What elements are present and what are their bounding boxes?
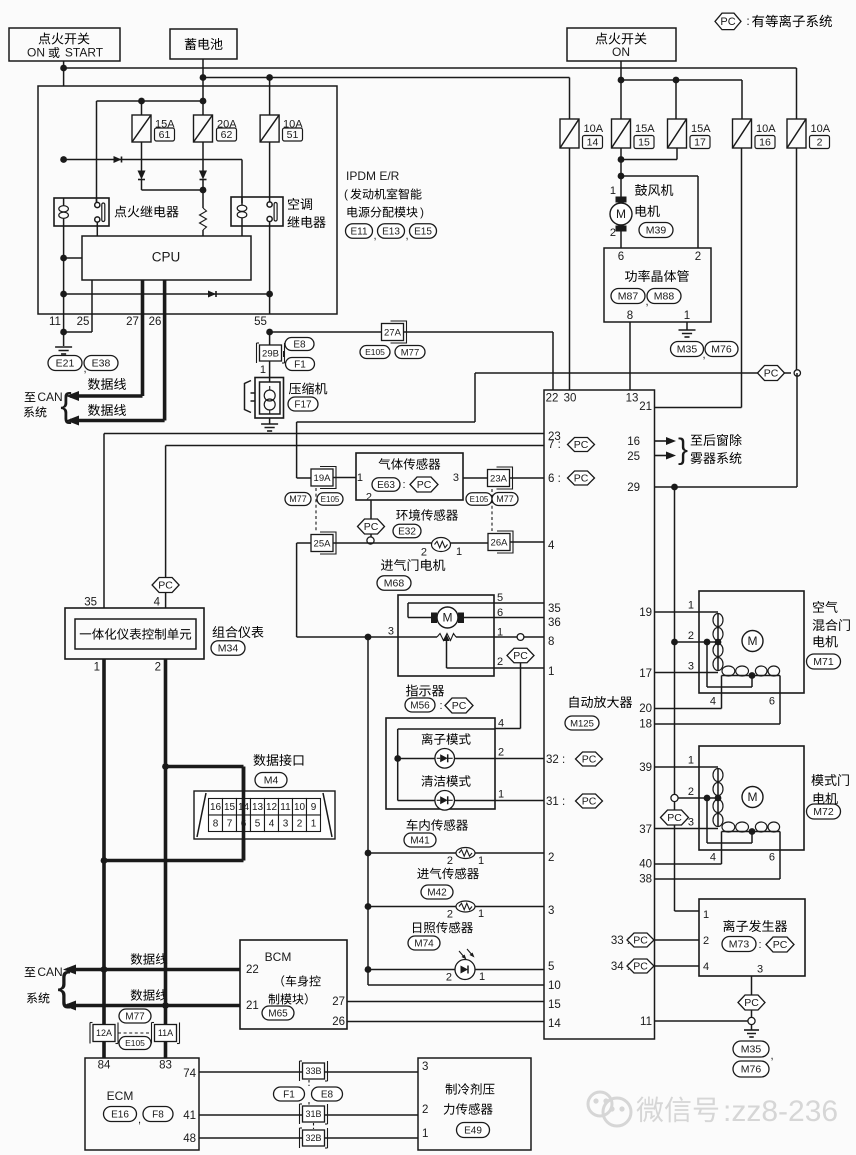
svg-text:M: M [443,611,453,625]
svg-text:2: 2 [688,630,694,642]
meter pin2 CAN thick wire down [164,659,168,1058]
connector 26A [497,531,513,553]
resistor ambient sensor element [432,538,451,552]
svg-text:M76: M76 [711,344,732,356]
svg-text:4: 4 [498,717,504,729]
svg-text:39: 39 [639,762,652,774]
wire transistor pin8 to amp pin13 [629,322,631,390]
connector 23A [497,467,513,489]
svg-text:1: 1 [479,971,485,983]
fuse 10A #14 [560,119,579,148]
wire amp pin29 PC option [655,486,797,488]
intake sensor wire to amp pin3 [365,903,372,910]
svg-text:M34: M34 [218,643,239,655]
svg-text:M41: M41 [410,836,430,847]
wire amp pin16 defogger arrow [655,440,666,442]
svg-text:33B: 33B [305,1066,321,1076]
label combination meter M34 [213,626,264,638]
wire fuse15 down to blower [620,148,622,197]
fuse 15A #61 [132,115,151,142]
svg-text:E32: E32 [398,527,416,538]
svg-text:M72: M72 [813,806,834,818]
svg-text:3: 3 [453,472,459,484]
svg-text:PC: PC [582,754,597,766]
svg-text:4: 4 [548,540,555,552]
M72 pin4 wire to amp pin40 [721,832,723,865]
wire fuse62 output to diode [202,142,204,171]
refrigerant pressure sensor E49 box [418,1058,531,1150]
fuse 10A #16 [733,119,752,148]
svg-text:15A: 15A [691,123,711,135]
wire PC net to ion generator pin1 [674,825,676,911]
svg-text:,: , [373,230,376,242]
M71 winding B [713,644,723,657]
svg-text:1: 1 [548,666,554,678]
connector E11 E13 E15 ovals [346,224,373,239]
svg-text:M77: M77 [496,494,514,504]
ECM pin74 wire to refrigerant sensor pin3 [199,1071,418,1073]
svg-text:M88: M88 [654,291,675,303]
svg-text:2: 2 [497,656,503,668]
svg-text:CPU: CPU [152,250,181,265]
svg-text:23A: 23A [490,473,508,484]
connector E8/F1 ovals [285,338,314,351]
arrow CAN data line 3 [63,965,76,975]
wire battery rail y77 [202,59,204,115]
svg-text:M77: M77 [289,494,307,504]
node open circle fuse2 option [794,370,800,376]
svg-text:22: 22 [546,393,559,405]
fuse 15A #15 [612,119,631,148]
svg-text:31B: 31B [305,1109,321,1119]
svg-text:PC: PC [744,997,759,1009]
label sunload sensor M74 [413,922,473,934]
svg-text:29: 29 [627,482,640,494]
node open circle ion ground [748,1017,755,1024]
ECM box [85,1058,199,1150]
svg-text:2: 2 [695,251,701,263]
hexagon PC below M72 circle [674,801,676,810]
hexagon PC ion ground [738,995,765,1010]
relay A/C contact [267,202,272,207]
svg-text:1: 1 [688,599,694,611]
CPU pin 26 CAN wire thick [163,280,167,421]
svg-text:14: 14 [548,1018,561,1030]
svg-text:E11: E11 [350,227,367,238]
label air mix door motor M71 [813,601,838,613]
svg-text:2: 2 [688,786,694,798]
svg-text:E16: E16 [111,1110,129,1121]
diode D3 down at fuse62 [199,171,207,180]
wire CPU bottom diode row y294 [60,291,67,298]
wire 23A to amp pin6 [509,477,544,479]
svg-text:PC: PC [574,439,589,451]
svg-text::: : [439,700,442,712]
air mix door motor M71 box [699,591,804,693]
label data line 3 [131,953,168,965]
svg-text:27: 27 [332,996,345,1008]
connector 33B [299,1061,301,1081]
svg-text:20: 20 [639,703,652,715]
dashed connector line 23A-26A [491,489,493,531]
svg-text:PC: PC [764,368,779,380]
svg-text:61: 61 [159,129,171,141]
svg-text:2: 2 [421,546,427,558]
svg-text:M76: M76 [741,1064,762,1076]
wire 26A to amp pin4 [510,541,544,543]
svg-text:36: 36 [548,617,561,629]
label blower motor M39 [635,184,673,196]
M72 pin1 wire from amp pin39 [655,766,718,768]
ECM pin48 wire to refrigerant sensor pin1 [199,1137,418,1139]
M68 wiper arrow [443,635,449,642]
svg-text:11: 11 [280,802,291,813]
svg-text:E105: E105 [125,1038,145,1048]
svg-text:37: 37 [639,824,652,836]
wire A/C coil to CPU [241,226,243,236]
svg-text:8: 8 [627,310,633,322]
connector 11A [151,1023,153,1044]
wire amp pin33 to ion pin2 [654,939,699,941]
svg-text:E49: E49 [464,1126,482,1137]
connector 19A [320,467,336,489]
svg-text:E38: E38 [92,358,111,370]
svg-text:8: 8 [213,819,219,830]
label intake door motor M68 [381,559,445,571]
connector ovals M77/E105 left pair [285,493,311,506]
wire PC option line y373 [475,372,791,374]
M72 pin6 wire to amp pin38 [779,832,781,880]
svg-text:26: 26 [149,316,162,328]
svg-text:5: 5 [548,961,554,973]
ECM pin41 wire to refrigerant sensor pin2 [199,1114,418,1116]
svg-text:PC: PC [633,961,648,973]
svg-text:19A: 19A [314,473,332,484]
M72 winding B [713,800,723,813]
svg-text:M71: M71 [813,656,834,668]
CPU pin 27 CAN wire thick [141,280,145,396]
svg-text:1: 1 [311,819,317,830]
svg-text:12A: 12A [96,1028,112,1038]
wire ignition into relay coils y159.5 [60,156,67,163]
svg-text:PC: PC [364,521,379,533]
svg-text:BCM: BCM [265,950,292,964]
wire transistor pin1 to ground [686,322,688,330]
svg-text:15: 15 [548,999,561,1011]
data link connector cells [209,799,223,816]
svg-text:1: 1 [684,310,690,322]
svg-text:PC: PC [667,812,682,824]
label ion mode [422,733,471,745]
svg-text:ON: ON [612,45,630,59]
wire fuse2 into circle [796,148,798,370]
fuse 10A #51 [260,115,279,142]
svg-text:21: 21 [639,401,652,413]
svg-text:17: 17 [639,668,652,680]
svg-text:1: 1 [422,1128,428,1140]
svg-text:PC: PC [513,650,528,662]
svg-text:M125: M125 [570,718,594,729]
data link connector M4 wire [162,763,169,770]
svg-text:40: 40 [639,859,652,871]
M71 pin2 wire [671,639,678,646]
connector F1/E8 ovals [274,1087,305,1101]
M72 pin2 wire with option circle [671,794,678,801]
svg-text:}: } [678,433,688,466]
node open circle ambient junction [370,534,372,537]
M71 motor symbol [742,631,763,652]
M72 horizontal windings [722,822,735,832]
svg-text:{: { [57,965,70,1009]
svg-text:E8: E8 [321,1090,334,1101]
IPDM E/R box [38,86,337,314]
gas sensor E63 box [356,453,463,500]
sensor ground wire to amp pin10 [368,984,544,986]
connector 12A [89,1023,91,1044]
node ignition-switch ON/START box [9,28,120,61]
svg-text:M: M [616,207,626,221]
svg-text:M87: M87 [618,291,639,303]
svg-text:PC: PC [633,935,648,947]
svg-text:6: 6 [769,695,775,707]
sunload light arrows [459,951,465,958]
svg-text:31 :: 31 : [546,796,565,808]
svg-text:1: 1 [94,662,100,674]
svg-text:10A: 10A [584,123,604,135]
wire fuse14 to amp pin30 [569,148,571,390]
label indicator M56 [406,684,444,696]
svg-text:E15: E15 [414,227,432,238]
node battery box [170,29,237,59]
svg-text::: : [746,14,749,28]
BCM box [240,940,347,1029]
svg-text:48: 48 [183,1133,196,1145]
svg-text::: : [758,939,761,951]
wire pin29 branch vertical [674,487,676,795]
wire ignition ON/START rail y68 [63,61,65,86]
svg-text:1: 1 [610,185,616,197]
LED clean mode [398,800,435,802]
M71 pin3 wire from amp pin17 [655,672,718,674]
svg-text:10: 10 [294,802,306,813]
svg-text:E105: E105 [321,495,340,504]
svg-text:32 :: 32 : [546,754,565,766]
svg-text:25: 25 [77,316,90,328]
relay A/C coil [237,205,247,211]
M72 winding A [713,769,723,782]
svg-text:10A: 10A [811,123,831,135]
svg-text:1: 1 [478,855,484,867]
M71 winding A [713,614,723,627]
svg-text:6: 6 [497,607,503,619]
connector 25A [320,532,336,554]
svg-text:15A: 15A [635,123,655,135]
svg-text:10: 10 [548,980,561,992]
ground E21/E38 [55,346,72,348]
wire blower branch to power transistor pin2 [621,175,698,177]
arrow CAN data line 1 [66,391,79,401]
ground compressor [269,418,271,424]
svg-text:M74: M74 [414,939,434,950]
LED ion mode [398,758,435,760]
svg-text::: : [402,479,405,491]
label data line 2 [88,404,126,416]
label in-vehicle sensor M41 [407,819,468,831]
fuse 15A #17 [668,119,687,148]
gas sensor pin2 wire down [370,500,372,519]
diode D1 ignition-to-AC-coil [114,156,122,163]
svg-text:55: 55 [254,316,267,328]
svg-text:6: 6 [769,851,775,863]
wire option line left leg to gas sensor [474,373,476,422]
svg-text:PC: PC [582,796,597,808]
svg-text:IPDM E/R: IPDM E/R [346,169,400,183]
svg-text:1: 1 [260,364,266,376]
connector M77 oval at 12A/11A [119,1009,151,1023]
svg-text:3: 3 [757,963,763,975]
svg-text:2: 2 [297,819,303,830]
label to CAN system top [25,392,36,402]
svg-text:1: 1 [688,754,694,766]
relay ignition relay box [54,198,109,226]
relay ignition contact [95,202,100,207]
indicator pin2 wire to amp pin32 [455,758,545,760]
hexagon PC on option line [758,366,785,381]
BCM pin26 wire to amp pin14 [347,1021,544,1023]
svg-text:5: 5 [497,592,503,604]
indicator internal feed [398,728,495,730]
svg-text:15: 15 [224,802,236,813]
svg-text:PC: PC [417,479,432,491]
label to rear defogger system [691,434,742,446]
node open circle on pin8 wire [517,634,524,641]
svg-text:11: 11 [640,1016,652,1028]
svg-text:3: 3 [548,905,554,917]
svg-text:27: 27 [126,316,139,328]
M68 pin6 wire to amp pin36 [464,617,544,619]
mode door motor M72 box [699,746,804,850]
fuse 20A #62 [194,115,213,142]
svg-text:F1: F1 [294,360,306,371]
svg-text:3: 3 [422,1061,428,1073]
BCM data line 22 thick [67,968,240,972]
svg-text:M68: M68 [384,578,405,590]
svg-text:M73: M73 [729,939,750,951]
in-vehicle sensor wire to amp pin2 [365,850,372,857]
label intake sensor M42 [417,868,479,880]
svg-text:17: 17 [694,137,706,149]
svg-text:2: 2 [447,908,453,920]
CPU box [82,236,251,280]
wire ignition vertical through relay to CPU left [63,226,65,314]
svg-text:M35: M35 [677,344,698,356]
sunload sensor photodiode to amp pin5 [365,966,372,973]
svg-text:5: 5 [255,819,261,830]
svg-text:19: 19 [639,607,652,619]
BCM pin27 wire to amp pin15 [347,1001,544,1003]
label compressor F17 [289,382,327,394]
wire fuse61 output to diode [141,142,143,171]
svg-text:11: 11 [49,316,61,328]
connector E105/M77 ovals at 27A [360,346,390,359]
svg-text:E8: E8 [293,340,306,351]
svg-text:4: 4 [703,961,709,973]
M71 horizontal windings [722,666,735,676]
data link connector drawing [194,791,335,839]
svg-text:25: 25 [627,451,640,463]
ground M35/M76 ion [751,1024,753,1030]
label to CAN system bottom [25,967,36,977]
wire fuse61 feed y101 [97,100,204,102]
svg-text:22: 22 [246,964,259,976]
svg-text:16: 16 [627,436,640,448]
svg-text:7: 7 [227,819,233,830]
svg-text:35: 35 [548,603,561,615]
svg-text::zz8-236: :zz8-236 [723,1095,838,1128]
watermark wechat id [588,1092,631,1126]
meter pin1 CAN thick wire down [102,659,106,1058]
svg-text:41: 41 [183,1110,196,1122]
svg-text:9: 9 [311,802,317,813]
svg-text:CAN: CAN [37,390,62,404]
svg-text:16: 16 [759,137,771,149]
label data line 1 [88,378,126,390]
svg-text:E63: E63 [377,480,395,491]
svg-text:1: 1 [703,909,709,921]
node ignition-switch ON box [567,28,676,61]
label ambient sensor E32 [396,509,458,521]
svg-text:2: 2 [498,746,504,758]
svg-text:4: 4 [710,851,716,863]
dashed line 12A-11A [118,1032,152,1034]
legend PC = with plasma cluster system [715,13,741,30]
label ignition relay [115,205,179,217]
svg-text:,: , [138,1114,141,1126]
svg-text:PC: PC [158,580,173,592]
svg-text:2: 2 [548,852,554,864]
svg-text:1: 1 [498,788,504,800]
hexagon PC gas sensor pin2 [358,519,385,534]
svg-text:{: { [60,387,71,425]
M68 pin3 wire row y637 [365,634,372,641]
svg-text:83: 83 [159,1060,172,1072]
svg-text:1: 1 [357,472,363,484]
wire 19A to gas sensor pin1 [333,477,356,479]
connector 31B [299,1104,301,1124]
svg-text:84: 84 [98,1060,111,1072]
svg-text:F17: F17 [294,400,312,411]
svg-text:16: 16 [210,802,222,813]
label data line 4 [131,989,168,1001]
svg-text:PC: PC [452,700,467,712]
fuse 10A #2 [787,119,806,148]
svg-text:2: 2 [703,935,709,947]
relay A/C relay box [231,197,283,226]
svg-text:M65: M65 [268,1009,288,1020]
svg-text:M77: M77 [125,1012,145,1023]
svg-text:M42: M42 [427,888,447,899]
wire amp pin7 to meter pin4 [166,445,544,447]
potentiometer M68 [437,634,456,641]
svg-text:26: 26 [332,1016,345,1028]
M68 pin2 wire to amp pin1 [447,667,495,669]
svg-text:14: 14 [587,137,599,149]
svg-text:74: 74 [183,1068,196,1080]
svg-text:1: 1 [478,908,484,920]
svg-text:29B: 29B [262,348,279,359]
diode D2 down at fuse61 [138,171,146,180]
svg-text:F8: F8 [152,1110,164,1121]
